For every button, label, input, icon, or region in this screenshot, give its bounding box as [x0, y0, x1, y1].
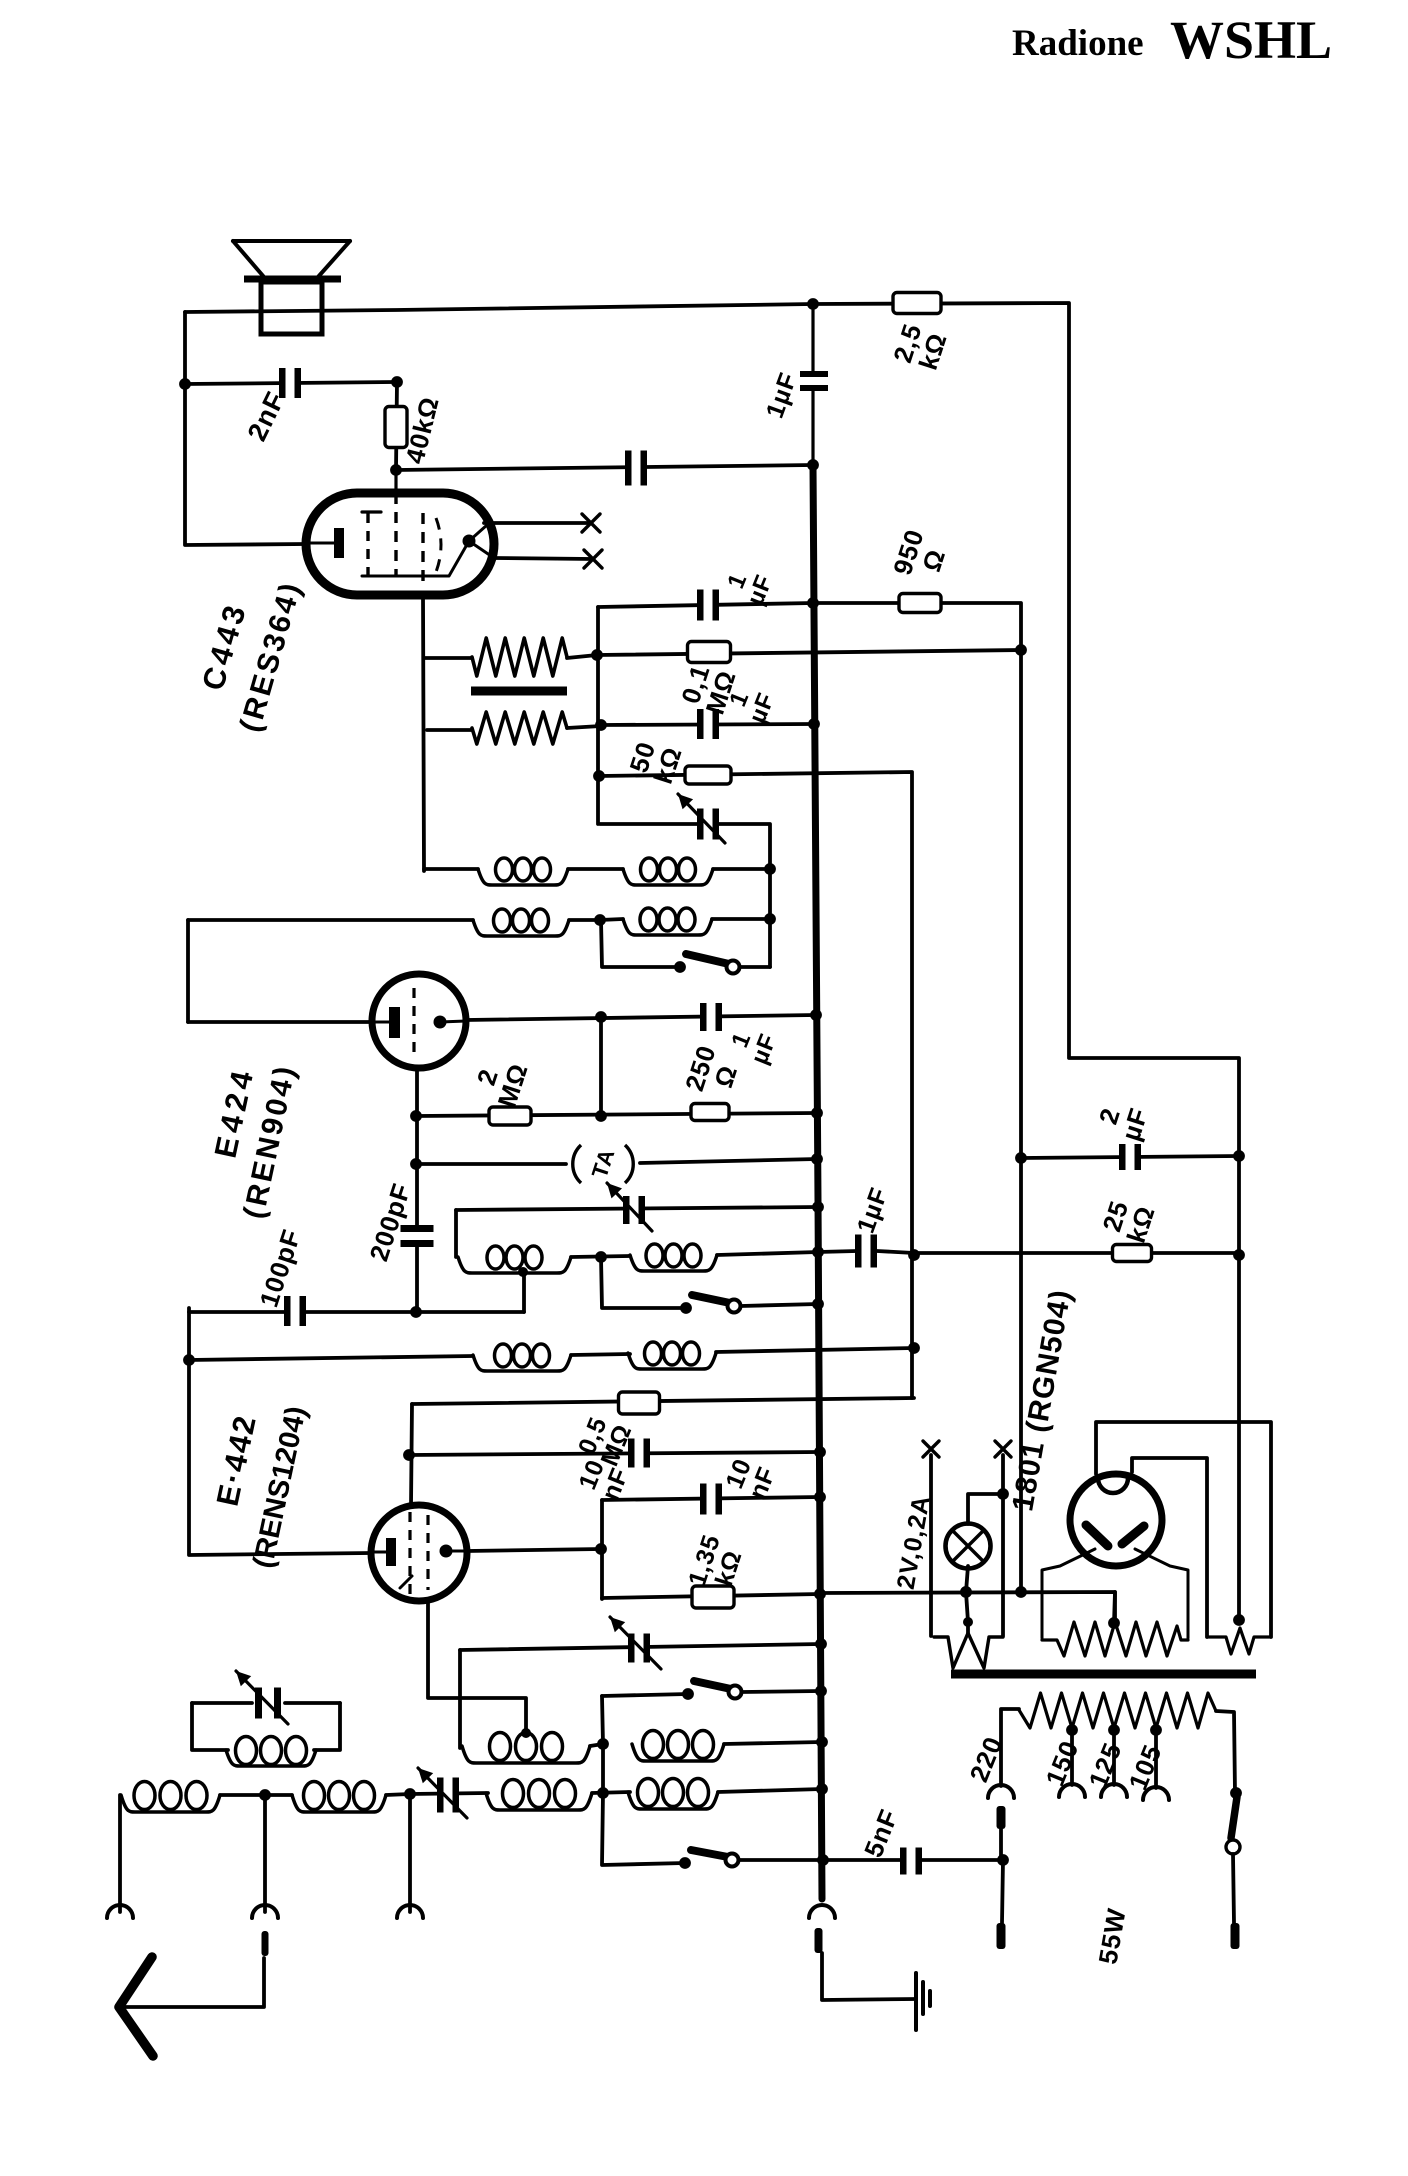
svg-text:Radione: Radione — [1012, 23, 1144, 64]
svg-text:WSHL: WSHL — [1170, 10, 1332, 70]
